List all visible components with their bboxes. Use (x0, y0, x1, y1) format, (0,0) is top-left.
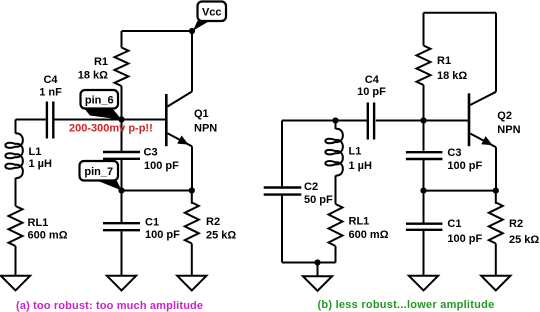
svg-text:C4: C4 (43, 74, 58, 86)
svg-text:10 pF: 10 pF (357, 86, 386, 98)
svg-text:R2: R2 (509, 218, 523, 230)
svg-text:Vcc: Vcc (202, 6, 222, 18)
svg-text:Q1: Q1 (194, 108, 209, 120)
svg-text:C1: C1 (447, 218, 461, 230)
svg-text:18 kΩ: 18 kΩ (78, 70, 108, 82)
svg-text:NPN: NPN (497, 124, 520, 136)
svg-text:NPN: NPN (194, 123, 217, 135)
svg-text:C4: C4 (365, 74, 380, 86)
svg-text:R1: R1 (437, 55, 451, 67)
svg-text:600 mΩ: 600 mΩ (28, 230, 68, 242)
svg-text:1 nF: 1 nF (39, 86, 62, 98)
svg-text:L1: L1 (349, 146, 362, 158)
svg-text:C1: C1 (145, 217, 159, 229)
svg-text:200-300mv p-p!!: 200-300mv p-p!! (69, 123, 153, 135)
svg-text:R2: R2 (206, 216, 220, 228)
svg-text:C2: C2 (304, 181, 318, 193)
svg-text:50 pF: 50 pF (304, 194, 333, 206)
svg-text:100 pF: 100 pF (447, 160, 482, 172)
svg-text:R1: R1 (94, 56, 108, 68)
svg-text:L1: L1 (29, 146, 42, 158)
svg-text:25 kΩ: 25 kΩ (206, 230, 236, 242)
svg-text:RL1: RL1 (349, 216, 370, 228)
svg-text:600 mΩ: 600 mΩ (349, 229, 389, 241)
svg-text:18 kΩ: 18 kΩ (437, 70, 467, 82)
svg-text:100 pF: 100 pF (144, 160, 179, 172)
svg-text:Q2: Q2 (497, 110, 512, 122)
svg-text:(b) less robust...lower amplit: (b) less robust...lower amplitude (318, 299, 495, 311)
svg-text:1 µH: 1 µH (29, 158, 53, 170)
svg-text:pin_7: pin_7 (84, 166, 113, 178)
svg-text:100 pF: 100 pF (145, 229, 180, 241)
svg-text:1 µH: 1 µH (349, 160, 373, 172)
svg-text:pin_6: pin_6 (85, 94, 114, 106)
svg-text:25 kΩ: 25 kΩ (509, 234, 539, 246)
svg-text:RL1: RL1 (28, 217, 49, 229)
svg-text:C3: C3 (447, 147, 461, 159)
svg-text:100 pF: 100 pF (447, 233, 482, 245)
svg-text:C3: C3 (144, 146, 158, 158)
svg-text:(a) too robust: too much ampli: (a) too robust: too much amplitude (16, 300, 203, 312)
